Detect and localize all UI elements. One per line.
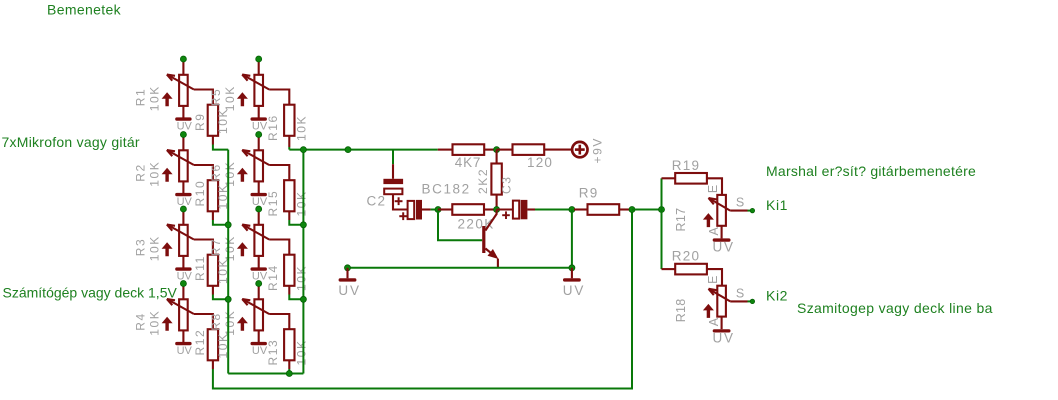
svg-text:R11: R11 <box>193 255 207 281</box>
node input of R2 <box>180 132 186 138</box>
capacitor C1 <box>399 200 430 220</box>
potentiometer R3 10K <box>162 209 194 268</box>
wire base tap to Q1 base <box>438 210 482 241</box>
svg-text:R4: R4 <box>134 312 148 331</box>
node input of R5 <box>256 56 262 62</box>
svg-text:10K: 10K <box>148 235 162 261</box>
svg-text:10K: 10K <box>294 339 308 365</box>
ground UV under R4 <box>175 342 192 357</box>
node supply junction <box>494 147 500 153</box>
svg-text:R7: R7 <box>209 238 223 257</box>
svg-text:7xMikrofon vagy gitár: 7xMikrofon vagy gitár <box>2 134 140 150</box>
svg-text:Számítógép vagy deck 1,5V: Számítógép vagy deck 1,5V <box>3 284 178 300</box>
svg-text:10K: 10K <box>148 161 162 187</box>
ground UV under R6 <box>251 193 268 208</box>
label R11 name+value <box>193 255 230 284</box>
potentiometer R6 10K <box>237 135 269 194</box>
label R15 name+value <box>266 190 308 217</box>
wire emitter ground line <box>348 267 572 269</box>
wire R18 wiper to Ki2 <box>730 300 747 302</box>
potentiometer R1 10K <box>162 59 194 118</box>
junction bus B row2 <box>300 222 306 228</box>
ground UV right <box>563 268 585 298</box>
svg-text:R20: R20 <box>672 249 700 264</box>
svg-text:R14: R14 <box>266 264 280 291</box>
svg-text:R3: R3 <box>134 238 148 257</box>
node output split <box>659 207 665 213</box>
svg-text:10K: 10K <box>294 115 308 141</box>
wire R9 bottom to bus A <box>212 136 214 145</box>
junction ground right <box>569 265 575 271</box>
svg-text:Ki2: Ki2 <box>766 288 788 304</box>
label R2 name+value <box>134 161 162 187</box>
label R13 name+value <box>266 339 308 366</box>
wire C2 to C1 <box>393 194 408 209</box>
svg-text:Bemenetek: Bemenetek <box>47 1 122 17</box>
ground UV under R17 <box>713 238 735 254</box>
svg-text:R17: R17 <box>674 208 688 232</box>
wire R13 bottom to bottom link <box>288 360 290 369</box>
resistor 220K feedback <box>438 204 497 215</box>
svg-text:E: E <box>706 185 720 193</box>
svg-text:E: E <box>706 276 720 284</box>
label R1 name+value <box>134 85 162 111</box>
node Ki2 <box>750 299 754 303</box>
svg-text:R12: R12 <box>193 329 207 356</box>
wire R6 wiper to series resistor <box>269 165 289 180</box>
svg-text:S: S <box>736 287 744 301</box>
svg-text:R18: R18 <box>674 298 688 322</box>
svg-text:UV: UV <box>713 240 735 255</box>
potentiometer R2 10K <box>162 135 194 194</box>
svg-text:10K: 10K <box>223 85 237 111</box>
svg-text:Szamitogep vagy deck line ba: Szamitogep vagy deck line ba <box>797 300 993 316</box>
node base junction <box>435 207 441 213</box>
wire R5 wiper to series resistor <box>269 90 289 105</box>
resistor 2K2 <box>491 150 501 210</box>
wire R11 bottom to bus A <box>212 286 214 295</box>
resistor R9 10K <box>208 105 218 136</box>
transistor Q1 BC182 <box>482 210 498 268</box>
svg-text:UV: UV <box>563 283 585 298</box>
wire R19 to R17 <box>707 178 722 195</box>
resistor R15 10K <box>284 180 294 211</box>
svg-text:R15: R15 <box>266 190 280 217</box>
resistor R11 10K <box>208 255 218 286</box>
junction R13 bottom <box>286 371 292 377</box>
junction bus A row2 <box>225 222 231 228</box>
svg-text:Marshal er?sít? gitárbemenetér: Marshal er?sít? gitárbemenetére <box>766 163 976 179</box>
capacitor C2 <box>383 164 403 205</box>
resistor R12 10K <box>208 329 218 360</box>
label R14 name+value <box>266 264 308 291</box>
svg-text:C3: C3 <box>499 175 513 194</box>
svg-text:R9: R9 <box>193 112 207 131</box>
resistor R13 10K <box>284 329 294 360</box>
resistor R14 10K <box>284 255 294 286</box>
ground UV under R7 <box>251 267 268 282</box>
svg-text:10K: 10K <box>223 235 237 261</box>
wire R7 wiper to series resistor <box>269 240 289 255</box>
capacitor C3 <box>497 200 535 219</box>
junction ground left <box>345 265 351 271</box>
node input of R7 <box>256 206 262 212</box>
junction output shunt <box>569 207 575 213</box>
wire R10 bottom to bus A <box>212 211 214 220</box>
wire R1 wiper to series resistor <box>194 90 213 105</box>
resistor 4K7 <box>438 144 497 155</box>
wire split to R19 <box>661 178 663 209</box>
wire R4 wiper to series resistor <box>194 314 213 329</box>
label R10 name+value <box>193 180 230 210</box>
svg-text:10K: 10K <box>148 310 162 336</box>
junction bus B row3 <box>300 296 306 302</box>
svg-text:UV: UV <box>713 331 735 346</box>
svg-text:S: S <box>736 196 744 210</box>
svg-text:R10: R10 <box>193 180 207 207</box>
svg-text:UV: UV <box>177 120 193 132</box>
wire C2 tap <box>392 150 394 165</box>
svg-text:R8: R8 <box>209 312 223 331</box>
node Ki1 <box>750 208 754 212</box>
potentiometer R18 <box>703 286 730 330</box>
wire R20 to R18 <box>707 269 722 286</box>
svg-text:2K2: 2K2 <box>476 168 490 194</box>
wire bus B vertical <box>302 150 304 374</box>
wire bus A vertical <box>227 150 229 374</box>
potentiometer R5 10K <box>237 59 269 118</box>
svg-text:R13: R13 <box>266 339 280 366</box>
wire C3 to R9 <box>535 209 574 211</box>
node input of R1 <box>180 56 186 62</box>
svg-text:R5: R5 <box>209 88 223 107</box>
svg-text:UV: UV <box>338 283 360 298</box>
svg-text:BC182: BC182 <box>422 182 471 197</box>
wire C1 to base node <box>431 209 438 211</box>
ground UV under R2 <box>175 193 192 208</box>
label R12 name+value <box>193 329 230 359</box>
node collector <box>494 207 500 213</box>
wire R8 wiper to series resistor <box>269 314 289 329</box>
svg-text:+9V: +9V <box>591 137 605 164</box>
svg-text:10K: 10K <box>294 265 308 291</box>
wire bus A to bus B bottom link <box>228 373 303 375</box>
svg-text:A: A <box>707 227 721 236</box>
svg-text:A: A <box>707 317 721 326</box>
svg-text:4K7: 4K7 <box>455 155 481 170</box>
label R4 name+value <box>134 310 162 336</box>
junction mixing line <box>345 147 351 153</box>
potentiometer R4 10K <box>162 284 194 343</box>
ground UV under R1 <box>175 117 192 132</box>
ground UV under R3 <box>175 267 192 282</box>
ground UV under R8 <box>251 342 268 357</box>
wire R3 wiper to series resistor <box>194 240 213 255</box>
svg-text:10K: 10K <box>294 190 308 216</box>
resistor R9 <box>574 204 632 215</box>
ground UV left <box>338 268 360 298</box>
wire R12 bottom to bottom bus <box>212 360 214 369</box>
svg-text:R9: R9 <box>579 186 599 201</box>
wire R17 wiper to Ki1 <box>730 210 747 212</box>
node input of R6 <box>256 132 262 138</box>
svg-text:R16: R16 <box>266 114 280 141</box>
svg-text:Ki1: Ki1 <box>766 197 788 213</box>
svg-text:R19: R19 <box>672 158 700 173</box>
potentiometer R7 10K <box>237 209 269 268</box>
wire split to R20 <box>661 210 663 270</box>
junction bus B top <box>300 147 306 153</box>
label R7 name+value <box>209 235 237 261</box>
svg-text:10K: 10K <box>223 161 237 187</box>
wire R2 wiper to series resistor <box>194 165 213 180</box>
svg-text:R2: R2 <box>134 163 148 182</box>
resistor R19 <box>675 173 707 184</box>
ground UV under R5 <box>251 117 268 132</box>
svg-text:UV: UV <box>177 345 193 357</box>
junction bus A row3 <box>225 296 231 302</box>
ground UV under R18 <box>713 329 735 345</box>
node input of R4 <box>180 281 186 287</box>
svg-text:R6: R6 <box>209 163 223 182</box>
svg-text:10K: 10K <box>148 85 162 111</box>
resistor R10 10K <box>208 180 218 211</box>
wire R15 bottom to bus B <box>288 211 290 220</box>
potentiometer R8 10K <box>237 284 269 343</box>
resistor R20 <box>675 264 707 275</box>
potentiometer R17 <box>703 195 730 239</box>
svg-text:R1: R1 <box>134 88 148 107</box>
label R8 name+value <box>209 310 237 336</box>
wire R16 bottom to main line <box>288 136 290 147</box>
node after R9 <box>629 207 635 213</box>
svg-text:10K: 10K <box>223 310 237 336</box>
node input of R8 <box>256 281 262 287</box>
wire mixing line to amplifier <box>289 149 438 151</box>
wire shunt to ground line <box>571 210 573 268</box>
supply +9V <box>572 142 587 157</box>
wire R14 bottom to bus B <box>288 286 290 295</box>
label R5 name+value <box>209 85 237 111</box>
resistor R16 10K <box>284 105 294 136</box>
label R3 name+value <box>134 235 162 261</box>
label R9 name+value <box>193 108 230 134</box>
svg-text:C2: C2 <box>367 194 387 209</box>
node input of R3 <box>180 206 186 212</box>
label R6 name+value <box>209 161 237 187</box>
resistor 120 <box>497 144 573 155</box>
label R16 name+value <box>266 114 308 141</box>
wire R9 to output split <box>632 209 662 211</box>
svg-text:120: 120 <box>527 155 553 170</box>
